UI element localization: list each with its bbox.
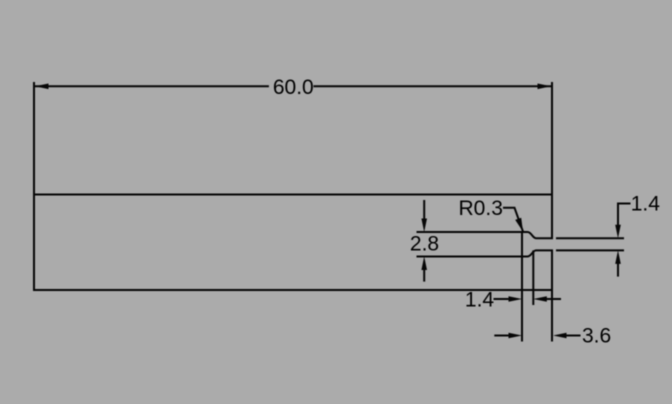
dim 1.4 right extension line bottom	[556, 249, 624, 251]
dim 3.6 arrowhead right (pointing left)	[553, 333, 567, 339]
dim 2.8 arrowhead lower (pointing up)	[421, 257, 427, 271]
svg-text:R0.3: R0.3	[459, 197, 503, 220]
leader R0.3 arrowhead	[515, 218, 523, 232]
dim 60.0 arrowhead left	[35, 84, 49, 90]
dim 1.4 right arrowhead upper (pointing down)	[615, 225, 621, 239]
dim 3.6 line right tail	[567, 335, 581, 337]
dim 1.4 right upper arrow tail and elbow	[618, 204, 631, 227]
svg-text:3.6: 3.6	[582, 324, 611, 347]
dim 2.8 arrowhead upper (pointing down)	[421, 219, 427, 233]
dim 60.0 line left segment	[35, 85, 269, 87]
dim 3.6 extension line right	[551, 290, 553, 342]
dim 1.4 right arrowhead lower (pointing up)	[615, 250, 621, 264]
dim 2.8 upper arrow tail	[423, 200, 425, 225]
dim 2.8 extension line bottom	[417, 256, 523, 258]
dim 2.8 lower arrow tail	[423, 263, 425, 282]
dim 1.4 bottom extension line right	[532, 250, 534, 305]
dim 1.4 bottom line right tail	[547, 298, 562, 300]
dim 60.0 extension line right	[551, 82, 553, 195]
svg-text:1.4: 1.4	[631, 193, 661, 216]
dim 1.4 bottom arrowhead right (pointing left)	[533, 296, 547, 302]
dim 1.4 right lower arrow tail	[617, 263, 619, 277]
dim 1.4 right extension line top	[556, 237, 624, 239]
part outline: bar with end slot and relief	[34, 195, 552, 291]
dim 1.4 bottom arrowhead left (pointing right)	[509, 296, 523, 302]
svg-text:2.8: 2.8	[410, 233, 439, 256]
svg-text:60.0: 60.0	[273, 76, 314, 99]
svg-text:1.4: 1.4	[465, 288, 495, 311]
dim 1.4 bottom line left tail	[494, 298, 510, 300]
leader R0.3 line	[503, 208, 523, 232]
dim 1.4 bottom extension line left	[521, 232, 523, 342]
dim 2.8 extension line top	[417, 231, 523, 233]
dim 3.6 line left tail	[494, 335, 509, 337]
dim 3.6 arrowhead left (pointing right)	[509, 333, 523, 339]
dim 60.0 extension line left	[33, 82, 35, 195]
dim 60.0 line right segment	[314, 85, 552, 87]
dim 60.0 arrowhead right	[538, 84, 552, 90]
